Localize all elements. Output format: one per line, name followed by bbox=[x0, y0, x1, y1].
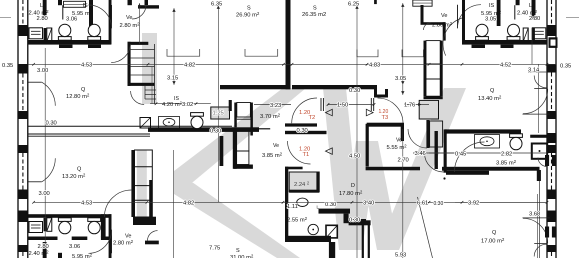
svg-text:0.30: 0.30 bbox=[349, 218, 360, 224]
svg-text:13.40 m2: 13.40 m2 bbox=[478, 94, 502, 102]
svg-text:2.70: 2.70 bbox=[398, 158, 409, 164]
svg-text:4.20 m2: 4.20 m2 bbox=[162, 100, 183, 108]
svg-text:4.50: 4.50 bbox=[349, 153, 360, 159]
svg-text:3.05: 3.05 bbox=[395, 76, 406, 82]
svg-text:3.70 m2: 3.70 m2 bbox=[260, 112, 281, 120]
svg-text:12.80 m2: 12.80 m2 bbox=[66, 92, 90, 100]
svg-text:Ve: Ve bbox=[126, 15, 132, 21]
svg-text:6.25: 6.25 bbox=[348, 2, 359, 8]
svg-text:1.76: 1.76 bbox=[404, 103, 415, 109]
svg-text:Q: Q bbox=[77, 167, 82, 173]
svg-text:17.80 m2: 17.80 m2 bbox=[339, 189, 363, 197]
svg-text:Q: Q bbox=[490, 88, 495, 94]
svg-text:7.75: 7.75 bbox=[209, 246, 220, 252]
svg-text:3.85 m2: 3.85 m2 bbox=[262, 151, 283, 159]
svg-text:4.82: 4.82 bbox=[184, 63, 195, 69]
svg-text:3.14: 3.14 bbox=[528, 68, 540, 74]
svg-text:0.45: 0.45 bbox=[455, 152, 466, 158]
svg-text:3.85 m2: 3.85 m2 bbox=[496, 159, 517, 167]
svg-text:Ve: Ve bbox=[273, 143, 279, 149]
svg-text:IS: IS bbox=[489, 3, 495, 9]
svg-text:1.20: 1.20 bbox=[379, 109, 389, 115]
svg-text:26.35 m2: 26.35 m2 bbox=[302, 12, 326, 18]
svg-text:0.30: 0.30 bbox=[349, 88, 360, 94]
svg-text:Q: Q bbox=[492, 230, 497, 236]
svg-text:S: S bbox=[313, 6, 317, 12]
svg-text:0.30: 0.30 bbox=[297, 128, 308, 134]
svg-text:Q: Q bbox=[81, 87, 86, 93]
svg-text:3.23: 3.23 bbox=[270, 103, 281, 109]
svg-text:0.35: 0.35 bbox=[2, 63, 13, 69]
svg-text:26.90 m2: 26.90 m2 bbox=[236, 11, 260, 19]
svg-text:2.80 m2: 2.80 m2 bbox=[120, 22, 141, 30]
svg-text:S: S bbox=[247, 6, 251, 12]
svg-text:2.55 m2: 2.55 m2 bbox=[287, 216, 308, 224]
svg-text:1.11: 1.11 bbox=[287, 204, 298, 210]
svg-text:D: D bbox=[351, 183, 355, 189]
svg-text:3.40: 3.40 bbox=[363, 201, 374, 207]
svg-text:3.15: 3.15 bbox=[167, 76, 178, 82]
svg-text:4.52: 4.52 bbox=[500, 63, 511, 69]
svg-text:0.30: 0.30 bbox=[325, 202, 336, 208]
svg-text:2.80 m2: 2.80 m2 bbox=[432, 21, 453, 29]
svg-text:3.46: 3.46 bbox=[415, 151, 426, 157]
svg-text:3.00: 3.00 bbox=[39, 191, 50, 197]
svg-text:5.93: 5.93 bbox=[395, 253, 406, 258]
svg-text:6.61: 6.61 bbox=[417, 201, 428, 207]
svg-text:2.82: 2.82 bbox=[501, 152, 512, 158]
svg-text:4.53: 4.53 bbox=[81, 63, 92, 69]
svg-text:2.40 m2: 2.40 m2 bbox=[29, 249, 50, 257]
svg-text:31.00 m2: 31.00 m2 bbox=[230, 253, 254, 258]
svg-text:3.05: 3.05 bbox=[485, 17, 496, 23]
svg-text:0.30: 0.30 bbox=[46, 121, 57, 127]
svg-text:4.83: 4.83 bbox=[369, 63, 380, 69]
svg-text:IS: IS bbox=[83, 3, 89, 9]
svg-text:2.80: 2.80 bbox=[529, 16, 540, 22]
svg-text:5.55 m2: 5.55 m2 bbox=[387, 143, 408, 151]
svg-text:17.00 m2: 17.00 m2 bbox=[481, 237, 505, 245]
svg-text:T1: T1 bbox=[303, 152, 310, 158]
svg-text:0.30: 0.30 bbox=[210, 129, 221, 135]
svg-text:2.80: 2.80 bbox=[37, 16, 48, 22]
svg-text:3.00: 3.00 bbox=[37, 68, 48, 74]
svg-text:L: L bbox=[40, 3, 43, 9]
svg-text:1.50: 1.50 bbox=[337, 103, 348, 109]
svg-text:Ve: Ve bbox=[396, 138, 402, 144]
svg-text:0.35: 0.35 bbox=[560, 64, 571, 70]
svg-text:Ve: Ve bbox=[441, 13, 447, 19]
svg-text:2.80 m2: 2.80 m2 bbox=[113, 239, 134, 247]
svg-text:5.95 m2: 5.95 m2 bbox=[72, 252, 93, 258]
svg-text:6.35: 6.35 bbox=[211, 2, 222, 8]
svg-text:3.92: 3.92 bbox=[468, 201, 479, 207]
svg-text:S: S bbox=[236, 248, 240, 254]
svg-text:3.68: 3.68 bbox=[529, 212, 540, 218]
svg-text:3.06: 3.06 bbox=[69, 244, 80, 250]
svg-text:T2: T2 bbox=[309, 115, 316, 121]
svg-text:L: L bbox=[529, 3, 532, 9]
svg-text:4.53: 4.53 bbox=[81, 201, 92, 207]
svg-text:3.02: 3.02 bbox=[182, 102, 193, 108]
svg-text:13.20 m2: 13.20 m2 bbox=[62, 172, 86, 180]
svg-text:4.82: 4.82 bbox=[183, 201, 194, 207]
svg-text:1.25: 1.25 bbox=[213, 111, 224, 117]
svg-text:0.30: 0.30 bbox=[434, 201, 444, 207]
svg-text:3.06: 3.06 bbox=[66, 17, 77, 23]
svg-text:T3: T3 bbox=[382, 115, 389, 121]
